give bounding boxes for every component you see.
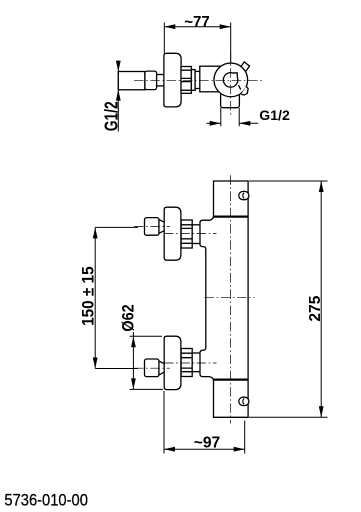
cone connector upper (front view) — [159, 219, 166, 233]
body step edge upper (bold) — [214, 216, 249, 218]
union nut lower (front view) — [181, 349, 192, 377]
hex nut lower (front view) — [145, 359, 159, 377]
svg-text:~97: ~97 — [194, 435, 221, 452]
mounting hole bottom (slotted) — [239, 397, 249, 405]
cone connector (top view) — [155, 75, 167, 86]
svg-text:G1/2: G1/2 — [259, 107, 290, 123]
threaded stub upper (front view) — [192, 225, 200, 244]
cone connector lower (front view) — [159, 361, 166, 375]
lower pipe axis — [134, 367, 170, 369]
union nut upper (front view) — [181, 220, 192, 248]
dimension diameter 62 — [130, 332, 164, 389]
knob inner hub circle — [223, 73, 238, 88]
wall flange escutcheon upper (front view) — [164, 207, 181, 260]
mounting hole top (slotted) — [239, 191, 249, 199]
button slot line — [239, 85, 241, 89]
adapter ring (top view) — [195, 71, 200, 88]
threaded stub lower (front view) — [192, 353, 200, 372]
threaded stub (top view) — [191, 70, 195, 91]
dimension 275 — [249, 181, 328, 417]
vertical centerline through knob — [230, 52, 232, 117]
svg-text:Ø62: Ø62 — [118, 304, 137, 331]
outlet stub (top view) — [221, 85, 240, 108]
svg-text:G1/2: G1/2 — [102, 101, 122, 131]
wall flange escutcheon (top view) — [164, 53, 181, 107]
mixer body outline (front view) — [200, 181, 248, 417]
svg-text:~77: ~77 — [184, 14, 210, 31]
lower valve axis — [164, 362, 217, 364]
vertical body centerline — [230, 175, 232, 423]
hex nut upper (front view) — [145, 218, 159, 236]
horizontal body centerline — [205, 296, 255, 298]
thermostat knob circle (top view) — [214, 63, 248, 97]
svg-text:150 ± 15: 150 ± 15 — [79, 266, 98, 326]
wall flange escutcheon lower (front view) — [164, 336, 181, 389]
upper valve axis — [164, 233, 217, 235]
front view centerlines — [134, 175, 255, 423]
union nut (top view) — [181, 67, 191, 94]
upper pipe axis — [134, 226, 170, 228]
inner hub key corner — [233, 73, 237, 78]
hex nut (top view) — [145, 71, 157, 90]
dimension ~97 — [164, 391, 245, 454]
svg-text:5736-010-00: 5736-010-00 — [4, 491, 88, 509]
knob button lower-right (top view) — [241, 86, 248, 95]
inlet pipe stub (top view) — [118, 72, 145, 90]
knob tab upper-right (top view) — [240, 62, 249, 72]
horizontal centerline (top view axis) — [134, 79, 264, 81]
valve body (top view) — [200, 66, 231, 92]
dimension G1/2 left (pipe thread) — [117, 60, 119, 131]
svg-text:275: 275 — [307, 295, 324, 321]
dimension 150 +/- 15 — [95, 227, 138, 368]
body step edge lower (bold) — [214, 379, 249, 381]
dimension ~77 — [164, 23, 230, 63]
dimension G1/2 right (outlet thread) — [207, 108, 259, 127]
top view centerlines — [134, 52, 264, 117]
